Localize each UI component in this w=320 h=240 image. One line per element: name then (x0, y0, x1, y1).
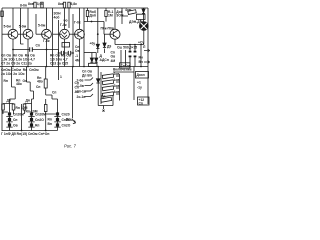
svg-text:Сп: Сп (36, 44, 40, 48)
wire switch taps (85, 78, 94, 97)
label box output (120, 63, 131, 68)
svg-text:+0у: +0у (90, 42, 96, 46)
resistor R1 (1, 11, 4, 17)
capacitor C16 (66, 51, 73, 55)
svg-text:+1: +1 (137, 81, 141, 85)
wire col2 v (31, 112, 33, 131)
svg-text:Rн: Rн (139, 56, 143, 60)
wire below bus v72 (72, 67, 74, 119)
node e (72, 52, 74, 54)
svg-text:Сп: Сп (13, 118, 17, 122)
node rail1 (91, 21, 93, 23)
transistor VT3 (42, 29, 52, 39)
wire collector VT4 (64, 8, 66, 29)
wire bottom rail (2, 130, 58, 132)
resistor R20 (2, 104, 5, 110)
node bottom1 (21, 130, 23, 132)
svg-text:Дя: Дя (7, 99, 11, 103)
svg-text:2о 1Оо 2о 1Оо: 2о 1Оо 2о 1Оо (1, 72, 25, 76)
indicator lamp HL1 (139, 22, 148, 45)
wire col1 v (9, 112, 11, 130)
svg-text:1ов: 1ов (114, 78, 120, 82)
wire base feed VT1 (2, 33, 8, 35)
svg-text:Д9: Д9 (107, 45, 111, 49)
wire left border (1, 8, 3, 131)
transistor VT6 (110, 29, 120, 39)
rotary ladder left rail (100, 72, 102, 104)
svg-text:2-0в: 2-0в (77, 79, 84, 83)
terminal arrow out1 (144, 49, 150, 52)
svg-text:4М: 4М (75, 59, 80, 63)
wire left col rail (2, 104, 10, 113)
wire emitter VT5 down (79, 39, 81, 67)
svg-text:Сп2О: Сп2О (62, 124, 71, 128)
node d (58, 52, 60, 54)
svg-text:5-0м: 5-0м (19, 25, 27, 29)
resistor R2 (34, 2, 36, 8)
node bottom2 (45, 130, 47, 132)
wire below bus stair left1 (10, 67, 16, 104)
svg-text:Ов: Ов (111, 55, 116, 59)
wire det link (84, 52, 96, 54)
diode VD3b detector (95, 53, 98, 64)
svg-text:Г 1пФ Д5 Rп(15) СпОм Сп+Оп: Г 1пФ Д5 Rп(15) СпОм Сп+Оп (1, 132, 49, 136)
wire emitter VT2 down (27, 39, 29, 67)
svg-text:Дп: Дп (101, 95, 105, 99)
svg-text:С-0в: С-0в (77, 84, 84, 88)
wire right border (147, 8, 149, 104)
svg-text:3,0к: 3,0к (37, 2, 44, 6)
svg-text:Rп: Rп (48, 118, 52, 122)
svg-text:С13 2о С15: С13 2о С15 (50, 62, 68, 66)
node c (97, 33, 99, 35)
wire v cap area (121, 50, 126, 67)
node cap bus dots (129, 44, 142, 46)
wire collector VT1 (12, 8, 14, 29)
svg-text:Сп20М: Сп20М (13, 113, 24, 117)
capacitor bank column 2 (30, 112, 33, 126)
svg-text:-1у: -1у (137, 86, 142, 90)
diode VD1 top right (142, 8, 145, 22)
wire interstage v2 (35, 14, 37, 34)
svg-text:Сп: Сп (139, 101, 143, 105)
svg-text:Г-0к: Г-0к (60, 23, 67, 27)
wire v10b (105, 17, 107, 22)
svg-text:Дп Вп: Дп Вп (82, 74, 92, 78)
svg-text:Сп: Сп (36, 85, 40, 89)
wire collector VT2 (27, 8, 29, 29)
svg-text:Сп20: Сп20 (62, 113, 70, 117)
wire base feed VT4 (53, 33, 60, 35)
svg-text:8ов: 8ов (58, 2, 64, 6)
svg-text:П0к-П0в: П0к-П0в (101, 27, 114, 31)
svg-text:Оп: Оп (23, 79, 28, 83)
rotary ladder row 1 (102, 74, 119, 79)
resistor R5 (68, 2, 70, 8)
svg-text:+Су: +Су (138, 41, 144, 45)
terminal arrow battery out (73, 120, 76, 124)
node b (46, 49, 48, 51)
svg-text:Вн: Вн (139, 60, 143, 64)
wire collector VT5 (79, 8, 81, 29)
wire stage5 rail (84, 22, 104, 35)
svg-text:4ов: 4ов (114, 90, 120, 94)
svg-text:Ов: Ов (75, 49, 80, 53)
svg-text:Доб: Доб (90, 14, 97, 18)
wire emitter VT4 down (64, 39, 66, 67)
capacitor C3 electrolytic (134, 45, 137, 67)
svg-text:2ов: 2ов (114, 72, 120, 76)
switch wiper bottom (101, 97, 112, 102)
wire base feed VT2 (18, 33, 23, 35)
svg-text:Вп: Вп (48, 122, 52, 126)
wire base net VT6 diode (104, 34, 106, 42)
svg-text:Сш 500,0×15: Сш 500,0×15 (117, 46, 137, 50)
svg-text:8-0я: 8-0я (20, 4, 27, 8)
wire bias drop VT2 (21, 8, 24, 44)
resistor R7 (105, 11, 107, 17)
terminal X mark (103, 106, 105, 112)
transistor VT5 (75, 29, 85, 39)
wire col2 top (21, 104, 23, 131)
svg-text:Сп20М: Сп20М (35, 113, 46, 117)
cap bank 2 bars (28, 116, 34, 127)
svg-text:Ов: Ов (13, 124, 18, 128)
svg-text:-1: -1 (75, 54, 78, 58)
svg-text:4ом: 4ом (125, 8, 132, 12)
wire v9 (97, 8, 99, 53)
rotary ladder row 2 (102, 80, 119, 85)
terminal arrow out2 (144, 61, 150, 64)
svg-text:АДСп: АДСп (100, 58, 109, 62)
wire emitter VT1 down (12, 39, 14, 67)
wire below bus v58 (58, 67, 60, 81)
wire v8b (87, 17, 89, 22)
svg-text:СпОм: СпОм (121, 64, 131, 68)
wire emitter link ext (47, 50, 59, 54)
wire interstage v7 (83, 8, 85, 67)
wire base feed VT5 (69, 33, 75, 35)
svg-text:ДЭН-ДЭ4: ДЭН-ДЭ4 (129, 20, 144, 24)
wire interstage v3 (52, 8, 54, 67)
svg-text:Сп-1в: Сп-1в (77, 90, 86, 94)
wire below bus stair left2 (27, 67, 34, 113)
wire emitter row link (13, 49, 47, 51)
capacitor bank column 1 (8, 112, 11, 126)
wire mid bus (0, 66, 148, 68)
svg-text:4М: 4М (111, 59, 116, 63)
wire bottom res row (3, 99, 46, 114)
svg-text:Rп: Rп (4, 79, 8, 83)
svg-text:5-0м: 5-0м (4, 25, 12, 29)
wire diode VD4 bottom (104, 49, 106, 54)
label box right2 (138, 97, 150, 105)
svg-text:υо: υо (64, 19, 68, 23)
svg-text:Г-0к: Г-0к (43, 39, 50, 43)
svg-text:Рис. 7: Рис. 7 (64, 144, 77, 149)
svg-text:6,8к: 6,8к (71, 2, 78, 6)
trimmer R8 slanted (122, 10, 145, 22)
diode VD2 agc (96, 44, 99, 48)
svg-text:8ов: 8ов (28, 2, 34, 6)
cap bank 1 bars (6, 116, 12, 127)
wire v10 (105, 8, 107, 11)
rotary ladder right rail (119, 74, 121, 101)
transistor VT1 (8, 29, 18, 39)
wire top supply rail (2, 7, 148, 9)
capacitor C1 coupling (26, 47, 37, 52)
node a (12, 49, 14, 51)
resistor R22 (23, 104, 26, 110)
diode VD6 mid (96, 67, 100, 106)
wire v8 (87, 8, 89, 11)
wire interstage v4 (58, 20, 60, 67)
wire collector VT3 (46, 8, 48, 29)
wire v11 (121, 8, 123, 24)
wire col3 v (57, 112, 59, 131)
svg-text:ЗОН: ЗОН (116, 14, 124, 18)
diode VD5 base VT6 (103, 42, 106, 47)
wire title underline (113, 71, 134, 73)
wire emitter VT3 down (46, 39, 48, 67)
cap bank 3 bars (54, 116, 60, 127)
resistor R9 (44, 79, 47, 88)
svg-text:48о: 48о (16, 82, 22, 86)
capacitor C14 (59, 51, 67, 55)
svg-text:Rп: Rп (35, 124, 39, 128)
wire collector VT6 (114, 8, 116, 29)
transistor VT4 diode pair (60, 29, 70, 39)
svg-text:Дя: Дя (26, 99, 30, 103)
wire detector bottom U (98, 95, 113, 106)
label box VT4 bias (62, 43, 70, 48)
svg-text:2о-1в: 2о-1в (77, 95, 86, 99)
svg-text:Вп: Вп (66, 118, 70, 122)
resistor R6 (86, 11, 88, 17)
resistor R23 (44, 105, 47, 112)
rotary ladder row 3 (102, 86, 119, 91)
svg-text:5-0м: 5-0м (38, 24, 46, 28)
svg-text:Включение: Включение (113, 68, 132, 72)
rotary ladder row 4 (102, 92, 119, 97)
wire emitter VT6 bus (115, 45, 144, 67)
wire emitter VT6 down (114, 39, 116, 44)
wire interstage v6 (72, 14, 74, 67)
wire below bus stair mid (46, 67, 58, 114)
wire base feed VT6 (104, 33, 110, 35)
svg-text:48о: 48о (37, 80, 43, 84)
resistor R3 (41, 2, 43, 8)
wire col3 left rail (46, 114, 56, 131)
svg-text:4об: 4об (54, 16, 60, 20)
label box right1 (136, 72, 149, 79)
svg-text:Сп2О: Сп2О (35, 118, 44, 122)
svg-text:1: 1 (60, 75, 62, 79)
svg-text:Зов: Зов (114, 84, 120, 88)
capacitor C2 electrolytic (129, 45, 132, 67)
svg-text:Г-0к: Г-0к (74, 21, 81, 25)
resistor R4 (63, 2, 65, 8)
svg-text:Сп: Сп (52, 91, 56, 95)
label box detector (89, 63, 98, 66)
diode VD3 detector (90, 53, 93, 64)
capacitor bank column 3 (56, 112, 59, 126)
wire base feed VT3 (36, 33, 42, 35)
transistor VT2 (23, 29, 33, 39)
junction dots bus (12, 66, 142, 68)
wire interstage v5 (68, 8, 70, 28)
svg-text:1М: 1М (108, 14, 113, 18)
svg-text:С7 2о С9 2о С11 2о: С7 2о С9 2о С11 2о (1, 62, 32, 66)
wire right col (133, 67, 135, 101)
svg-text:Дозн: Дозн (137, 73, 145, 77)
resistor R21 (12, 104, 15, 110)
